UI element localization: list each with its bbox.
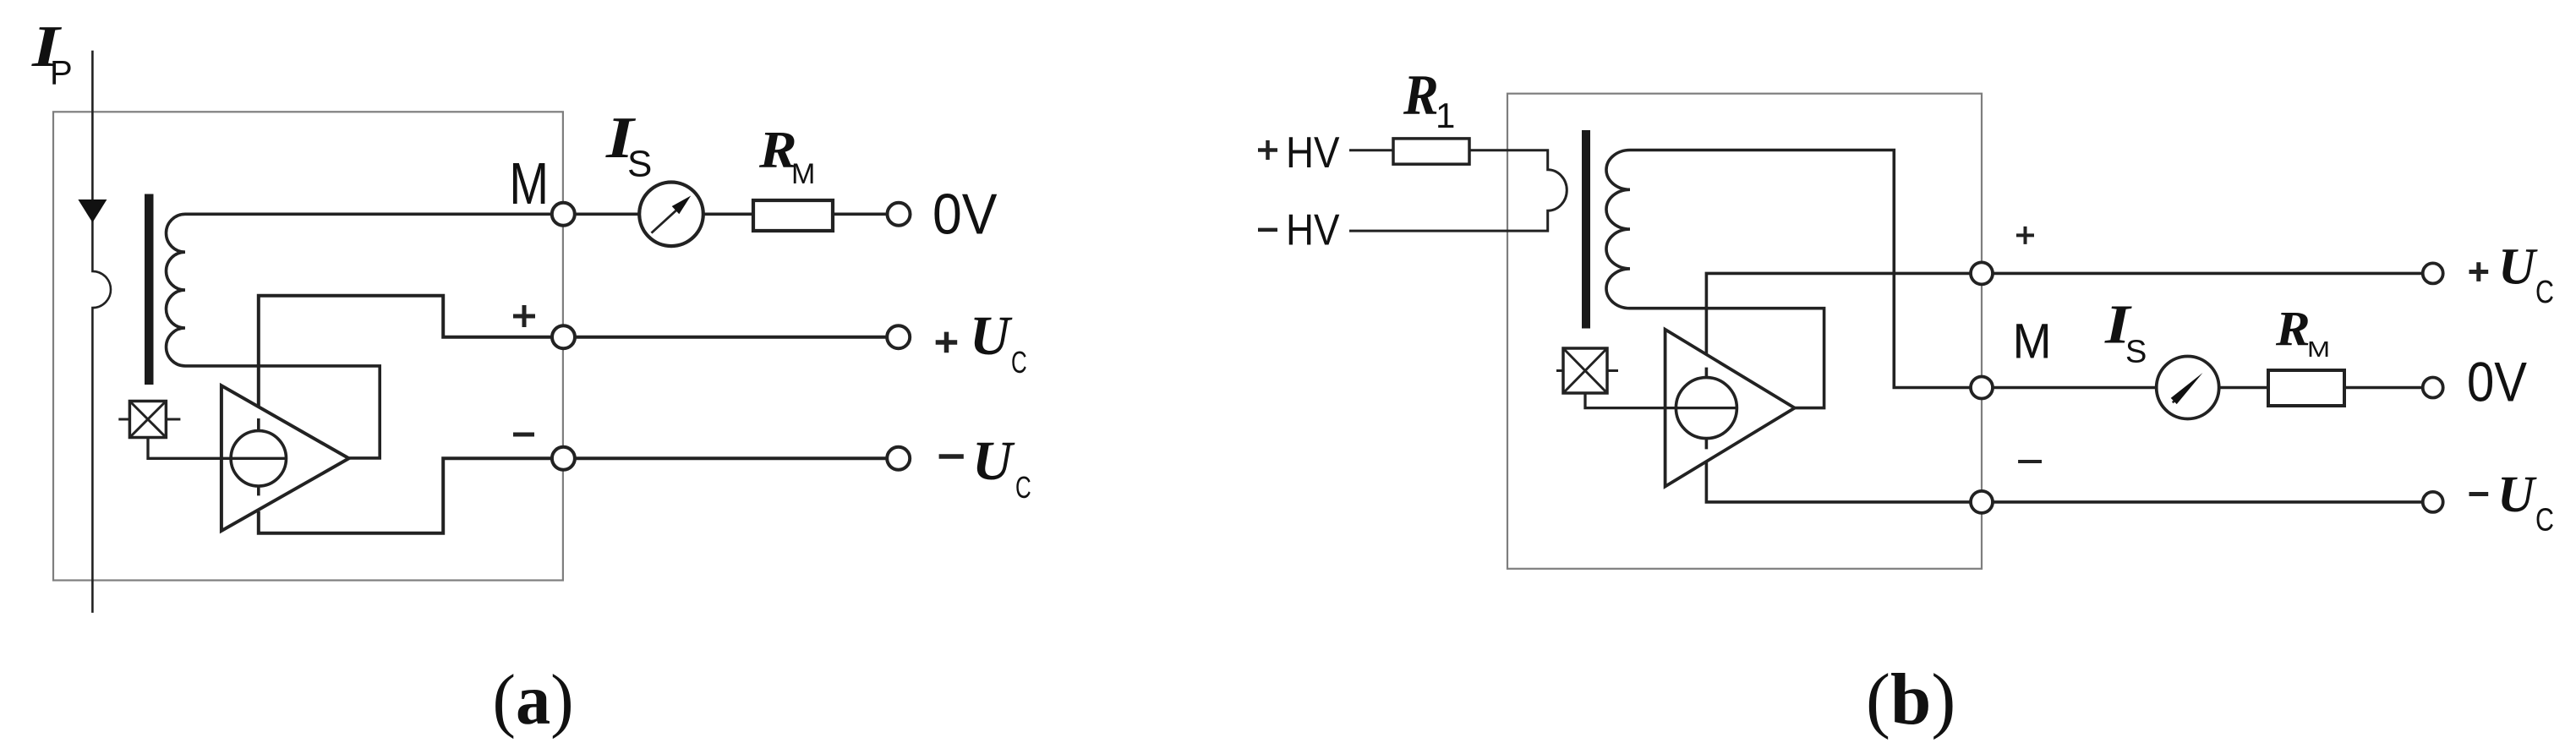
svg-text:M: M [2013, 314, 2052, 369]
svg-text:(a): (a) [493, 660, 574, 740]
svg-text:1: 1 [1436, 96, 1455, 135]
svg-text:C: C [1015, 471, 1031, 505]
svg-text:C: C [2535, 275, 2554, 310]
svg-text:U: U [2497, 467, 2537, 523]
svg-text:M: M [2307, 337, 2330, 362]
svg-text:U: U [970, 305, 1013, 367]
svg-text:M: M [791, 158, 815, 190]
svg-text:0V: 0V [933, 182, 998, 246]
svg-text:U: U [2498, 238, 2538, 295]
svg-text:U: U [972, 430, 1015, 492]
svg-text:S: S [2125, 334, 2147, 369]
svg-text:0V: 0V [2467, 352, 2528, 413]
svg-text:M: M [509, 151, 549, 216]
svg-text:S: S [627, 144, 652, 185]
svg-text:C: C [1011, 346, 1027, 380]
svg-text:C: C [2535, 502, 2554, 538]
svg-text:R: R [2275, 301, 2311, 355]
svg-text:(b): (b) [1866, 658, 1955, 740]
svg-text:R: R [1403, 64, 1439, 128]
svg-text:P: P [50, 55, 73, 92]
svg-text:HV: HV [1286, 128, 1340, 177]
svg-text:HV: HV [1286, 206, 1340, 254]
